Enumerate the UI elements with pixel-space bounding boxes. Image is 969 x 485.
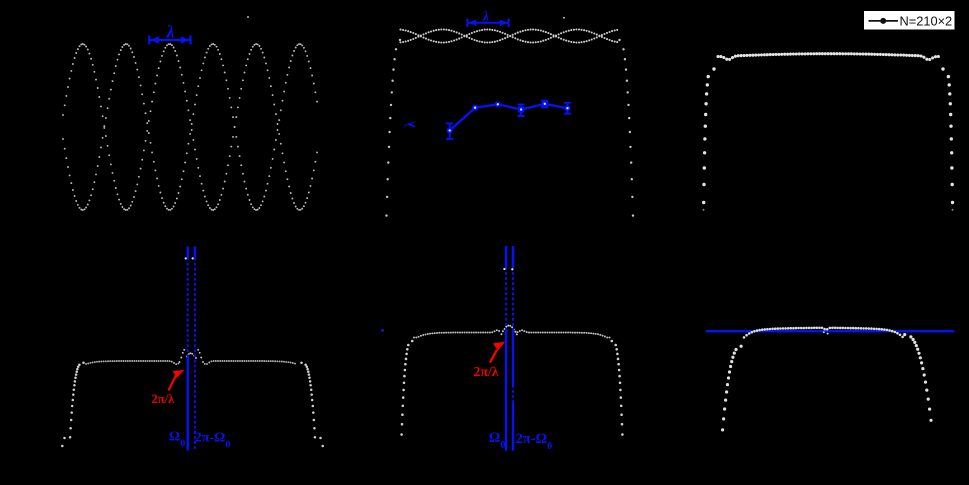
svg-text:λ: λ bbox=[482, 9, 489, 24]
svg-text:λ: λ bbox=[403, 121, 419, 129]
svg-text:N=210×2: N=210×2 bbox=[900, 14, 953, 29]
svg-text:2π/λ: 2π/λ bbox=[474, 364, 499, 379]
svg-text:λ: λ bbox=[166, 22, 175, 42]
svg-text:2π/λ: 2π/λ bbox=[152, 392, 176, 406]
